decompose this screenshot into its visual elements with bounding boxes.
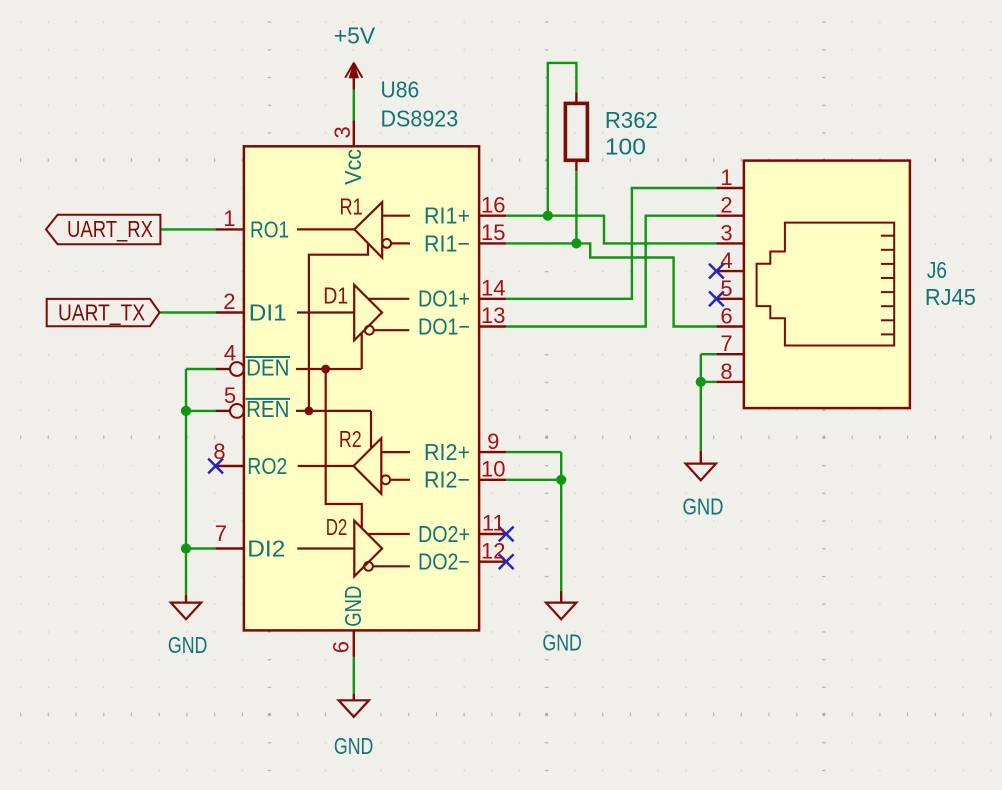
svg-text:DO2−: DO2− <box>418 549 470 575</box>
REN internal line <box>296 410 371 412</box>
wire J6 drop to GND <box>700 354 702 451</box>
pin 5 stub (inverted) <box>216 410 230 412</box>
D2 input line <box>297 547 354 549</box>
svg-text:GND: GND <box>683 494 724 520</box>
D1 output+ line <box>368 298 409 300</box>
D2 output- line <box>373 565 410 567</box>
svg-text:10: 10 <box>481 457 505 482</box>
pin 13 stub <box>479 325 506 327</box>
svg-text:6: 6 <box>329 641 354 653</box>
R2 input- bubble <box>381 475 390 484</box>
svg-text:DS8923: DS8923 <box>381 105 459 131</box>
svg-text:2: 2 <box>223 289 235 314</box>
wire REN stub <box>186 410 216 412</box>
svg-text:GND: GND <box>168 632 208 658</box>
ground symbol left <box>171 603 201 620</box>
wire DO1- (pin13) to J6 pin2 <box>506 216 716 327</box>
junction REN / left rail <box>181 406 191 416</box>
svg-text:J6: J6 <box>927 257 947 283</box>
J6 pin 8 stub <box>716 381 744 383</box>
GND stem J6 <box>700 451 702 464</box>
R2 output line <box>298 465 354 467</box>
wire +5V to pin 3 <box>353 90 355 121</box>
no-connect pin 11 DO2+ <box>499 527 514 542</box>
svg-text:1: 1 <box>223 206 235 231</box>
junction RI1- / resistor <box>571 238 581 248</box>
R2 input+ line <box>381 451 410 453</box>
GND stem left <box>185 595 187 603</box>
wire resistor bottom to RI1- net <box>575 171 577 243</box>
svg-text:RI2+: RI2+ <box>424 439 470 465</box>
+5V power symbol <box>353 64 355 90</box>
R1 enable link from REN <box>309 244 368 411</box>
DEN internal line <box>296 368 362 370</box>
op-amp D2 (driver 2) <box>354 521 382 577</box>
svg-text:Vcc: Vcc <box>340 149 366 185</box>
J6 jack contact 2 <box>881 249 894 251</box>
hierarchical label UART_TX <box>47 299 160 326</box>
svg-text:DEN: DEN <box>246 354 289 380</box>
svg-text:DO1+: DO1+ <box>418 286 470 312</box>
J6 jack contact 1 <box>881 235 894 237</box>
svg-text:8: 8 <box>213 439 225 464</box>
D1 output- line <box>374 329 410 331</box>
J6 jack contact 3 <box>881 263 894 265</box>
pin 8 stub <box>216 465 244 467</box>
svg-text:D2: D2 <box>326 514 348 540</box>
R1 output line <box>297 228 354 230</box>
pin 3 stub <box>353 120 355 146</box>
svg-text:6: 6 <box>720 304 732 329</box>
svg-text:7: 7 <box>720 331 732 356</box>
svg-text:R362: R362 <box>605 107 658 133</box>
svg-text:GND: GND <box>542 630 582 656</box>
D1 enable link from DEN <box>361 333 363 369</box>
svg-text:REN: REN <box>246 396 289 422</box>
svg-text:RO2: RO2 <box>247 453 287 479</box>
pin 9 stub <box>479 451 506 453</box>
svg-text:RI1+: RI1+ <box>424 203 470 229</box>
wire RI2+ (pin9) over to drop <box>506 451 561 453</box>
wire RI1- (pin15) to J6 pin6 <box>506 243 716 326</box>
svg-text:RI1−: RI1− <box>424 230 470 256</box>
J6 RJ45 jack outline <box>757 223 895 346</box>
J6 pin 2 stub <box>716 214 744 216</box>
svg-text:5: 5 <box>224 383 236 408</box>
ground symbol bottom <box>339 700 369 717</box>
DEN internal junction <box>321 365 330 374</box>
GND stem bottom <box>353 694 355 701</box>
R2 enable link from REN <box>370 411 372 448</box>
op-amp D1 (driver 1) <box>354 285 382 341</box>
svg-text:14: 14 <box>481 276 505 301</box>
J6 pin 6 stub <box>716 325 744 327</box>
pin 1 stub <box>216 228 244 230</box>
J6 pin 7 stub <box>716 353 744 355</box>
wire left vertical DEN/REN/DI2 to GND <box>185 369 187 595</box>
no-connect pin 12 DO2- <box>499 554 514 569</box>
J6 pin 1 stub <box>716 187 744 189</box>
svg-text:2: 2 <box>720 193 732 218</box>
svg-text:13: 13 <box>481 303 505 328</box>
wire RI1+ (pin16) to J6 pin3 <box>506 216 716 244</box>
junction DI2 / left rail <box>181 543 191 553</box>
svg-text:5: 5 <box>720 276 732 301</box>
pin 14 stub <box>479 298 506 300</box>
D1 output- bubble <box>365 326 374 335</box>
svg-text:DO1−: DO1− <box>418 313 470 339</box>
J6 pin 5 stub <box>716 298 744 300</box>
svg-text:4: 4 <box>224 341 236 366</box>
D2 output+ line <box>368 533 410 535</box>
svg-text:R2: R2 <box>339 426 362 452</box>
pin 16 stub <box>479 214 506 216</box>
svg-text:4: 4 <box>720 248 732 273</box>
svg-text:UART_RX: UART_RX <box>67 216 153 242</box>
svg-text:3: 3 <box>720 220 732 245</box>
ground symbol middle <box>546 603 576 620</box>
pin 6 stub <box>353 630 355 657</box>
resistor R362 <box>575 93 577 104</box>
pin 10 stub <box>479 479 506 481</box>
wire pin6 to GND <box>353 657 355 694</box>
svg-text:3: 3 <box>330 126 355 138</box>
svg-text:RI2−: RI2− <box>424 467 470 493</box>
wire DO1+ (pin14) to J6 pin1 <box>506 188 716 299</box>
svg-text:100: 100 <box>605 133 646 159</box>
svg-text:15: 15 <box>481 220 505 245</box>
D2 enable link from DEN <box>326 369 362 528</box>
ground symbol J6 <box>686 464 716 481</box>
svg-text:GND: GND <box>340 586 366 627</box>
junction J6 pin8 / GND drop <box>696 377 706 387</box>
wire RI2- (pin10) <box>506 479 561 481</box>
wire DEN stub <box>186 368 216 370</box>
svg-text:+5V: +5V <box>334 23 376 49</box>
no-connect pin 8 RO2 <box>208 459 223 474</box>
J6 jack contact 8 <box>881 333 894 335</box>
junction RI2- / GND drop <box>556 475 566 485</box>
svg-text:7: 7 <box>215 521 227 546</box>
op-amp R1 (receiver 1) <box>354 202 382 258</box>
J6 jack contact 4 <box>881 277 894 279</box>
R1 input- line <box>391 242 410 244</box>
svg-text:DI1: DI1 <box>249 300 287 326</box>
J6 pin 3 stub <box>716 242 744 244</box>
junction RI1+ / resistor <box>543 211 553 221</box>
R1 input- bubble <box>382 239 391 248</box>
svg-text:DI2: DI2 <box>247 536 285 562</box>
svg-text:GND: GND <box>334 733 374 759</box>
J6 pin 4 stub <box>716 270 744 272</box>
svg-text:UART_TX: UART_TX <box>58 299 145 325</box>
REN internal junction <box>305 407 314 416</box>
pin 11 stub <box>479 533 506 535</box>
IC U86 body <box>244 146 479 630</box>
pin 7 stub <box>216 547 244 549</box>
J6 jack contact 7 <box>881 319 894 321</box>
D1 input line <box>297 311 354 313</box>
svg-text:D1: D1 <box>323 282 348 308</box>
wire J6 pin7 to drop <box>701 353 717 355</box>
D2 output- bubble <box>364 562 373 571</box>
wire UART_RX to pin1 <box>160 228 215 230</box>
pin 12 stub <box>479 561 506 563</box>
GND stem middle <box>560 591 562 603</box>
no-connect J6 pin 4 <box>709 264 724 279</box>
connector J6 body <box>744 161 910 409</box>
svg-text:RJ45: RJ45 <box>925 284 976 310</box>
wire RI2 drop to GND <box>560 452 562 591</box>
pin 2 stub <box>216 311 244 313</box>
wire DI2 stub <box>186 547 216 549</box>
no-connect J6 pin 5 <box>709 291 724 306</box>
svg-text:8: 8 <box>720 359 732 384</box>
J6 jack contact 5 <box>881 291 894 293</box>
svg-text:11: 11 <box>482 511 505 536</box>
svg-text:1: 1 <box>720 165 732 190</box>
svg-text:12: 12 <box>481 538 505 563</box>
J6 jack contact 6 <box>881 305 894 307</box>
wire resistor top loop <box>548 63 577 216</box>
wire J6 pin8 <box>701 381 717 383</box>
svg-text:9: 9 <box>487 429 499 454</box>
pin 15 stub <box>479 242 506 244</box>
svg-text:U86: U86 <box>381 77 420 103</box>
R2 input- line <box>390 479 410 481</box>
pin 4 stub (inverted) <box>216 368 230 370</box>
wire UART_TX to pin2 <box>160 311 215 313</box>
R1 input+ line <box>382 215 410 217</box>
op-amp R2 (receiver 2) <box>354 438 382 494</box>
hierarchical label UART_RX <box>46 215 160 245</box>
svg-text:DO2+: DO2+ <box>418 521 470 547</box>
svg-text:16: 16 <box>481 192 505 217</box>
svg-text:R1: R1 <box>340 193 363 219</box>
svg-text:RO1: RO1 <box>250 216 289 242</box>
